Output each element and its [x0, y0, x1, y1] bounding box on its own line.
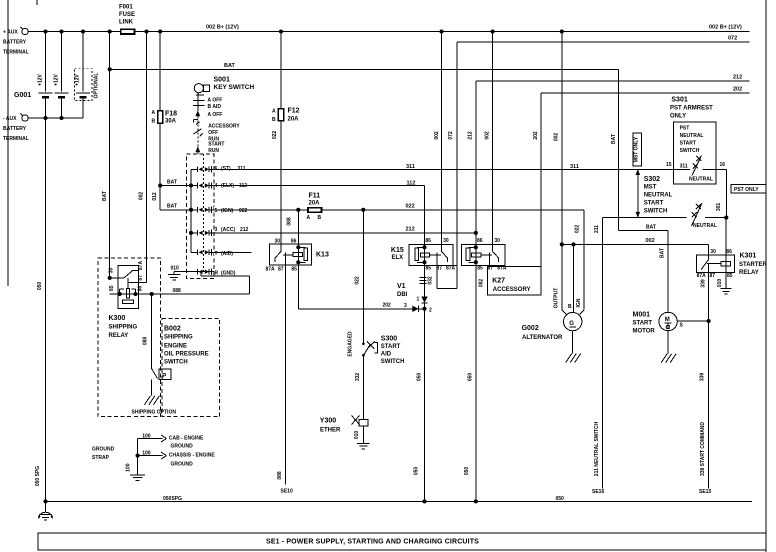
S301 row inner segments [673, 168, 690, 170]
key switch contact 5(IGN) [191, 209, 198, 211]
svg-text:A: A [307, 215, 311, 221]
svg-text:100: 100 [126, 463, 132, 472]
svg-text:2: 2 [429, 308, 432, 314]
svg-text:339: 339 [700, 373, 706, 382]
connector bars 032 [420, 277, 427, 279]
wire BAT feed ELX row [160, 185, 191, 187]
svg-text:(IGN): (IGN) [221, 208, 234, 214]
M001 ground [661, 354, 667, 363]
wire S301 out [716, 168, 727, 170]
wire BAT to K300 [109, 32, 111, 278]
wire 050 battery negative riser [45, 99, 47, 502]
K15 coil [424, 245, 426, 266]
svg-text:BAT: BAT [167, 204, 177, 210]
svg-text:G: G [569, 321, 574, 327]
key switch contact R(GND) [191, 271, 198, 273]
svg-text:K301: K301 [740, 253, 757, 260]
V1 diode vertical [421, 297, 427, 303]
svg-text:010: 010 [354, 431, 360, 440]
svg-text:85: 85 [477, 265, 483, 271]
G002 lower wire [572, 331, 574, 354]
Y300 solenoid [359, 420, 368, 426]
wire K27 85 down to 050 [475, 265, 477, 501]
svg-text:KEY SWITCH: KEY SWITCH [214, 84, 255, 91]
svg-text:012: 012 [152, 192, 158, 201]
svg-text:B: B [152, 119, 156, 125]
battery G001 cell 2 [61, 32, 63, 92]
svg-text:START: START [644, 201, 664, 207]
svg-text:212: 212 [733, 75, 742, 81]
wire 311 ST row [214, 168, 674, 170]
key switch contact 4(ELX) [191, 185, 198, 187]
K27 relay box [462, 245, 506, 266]
wire G002 B drop [573, 244, 575, 312]
S300 switch [362, 343, 365, 346]
svg-text:050: 050 [37, 282, 43, 291]
wire 002 K300 riser [146, 32, 148, 283]
wire 311 branch arrows [637, 169, 639, 217]
wire BAT bus [110, 68, 619, 70]
svg-text:G001: G001 [14, 92, 31, 99]
svg-text:BATTERY: BATTERY [3, 126, 27, 132]
Y300 lower wire [362, 426, 364, 443]
wire F12 output to K13 pin30 [280, 121, 282, 245]
svg-text:1: 1 [417, 296, 420, 302]
chassis ground symbol [45, 501, 47, 511]
wire 088 [110, 293, 250, 295]
svg-text:OIL PRESSURE: OIL PRESSURE [164, 352, 209, 358]
svg-text:GROUND: GROUND [171, 461, 194, 467]
page right border [765, 0, 767, 552]
svg-text:F001: F001 [119, 5, 133, 11]
svg-text:002 B+ (12V): 002 B+ (12V) [206, 25, 239, 31]
svg-text:ACCESSORY: ACCESSORY [493, 287, 531, 293]
svg-text:- AUX: - AUX [3, 116, 17, 122]
wire BAT M001 drop [667, 230, 669, 312]
svg-text:032: 032 [428, 276, 434, 285]
V1 diode horizontal [412, 306, 418, 312]
svg-text:IGN: IGN [576, 298, 582, 307]
svg-text:SE10: SE10 [281, 489, 293, 495]
svg-text:PST: PST [680, 126, 690, 132]
svg-text:339: 339 [701, 279, 707, 288]
svg-text:CHASSIS - ENGINE: CHASSIS - ENGINE [169, 453, 216, 459]
M001 circle [659, 312, 677, 330]
svg-text:088: 088 [277, 471, 283, 480]
wire 002 bus to K27 30 [492, 32, 494, 245]
svg-text:SWITCH: SWITCH [381, 359, 405, 365]
M001 S wire [677, 320, 708, 322]
G002 ground [566, 354, 572, 363]
wire 112 corner to K15 86 [424, 186, 426, 245]
svg-text:K27: K27 [492, 277, 505, 284]
svg-text:ENGINE: ENGINE [164, 344, 187, 350]
svg-text:F18: F18 [165, 111, 177, 118]
S302 switch [692, 203, 703, 226]
svg-text:002: 002 [554, 133, 560, 142]
K13 87 output wire SE10 [284, 265, 286, 484]
svg-text:NEUTRAL: NEUTRAL [680, 133, 704, 139]
K15 87 U-link [436, 265, 438, 288]
K13 relay box [269, 244, 311, 265]
wire -AUX [28, 117, 83, 119]
wire 212 bus to K27 86 [475, 81, 477, 245]
svg-text:A OFF: A OFF [208, 112, 223, 118]
fuse F18 [158, 111, 163, 124]
svg-text:B002: B002 [164, 326, 181, 333]
svg-text:022: 022 [575, 225, 581, 234]
K300 pin30 wire [110, 277, 124, 279]
svg-text:85: 85 [727, 273, 733, 279]
K27 coil [475, 245, 477, 266]
wire 212 top [476, 80, 750, 82]
svg-text:LINK: LINK [119, 20, 134, 26]
svg-text:K15: K15 [391, 247, 404, 254]
key arrow up [195, 111, 200, 117]
svg-text:30: 30 [275, 238, 281, 244]
svg-text:339 START COMMAND: 339 START COMMAND [700, 422, 706, 476]
svg-text:332: 332 [355, 373, 361, 382]
battery G001 cell 3 (optional) [82, 32, 84, 92]
svg-text:022: 022 [406, 203, 415, 209]
svg-text:(ACC): (ACC) [221, 227, 235, 233]
wire K15 85 down [424, 265, 426, 296]
svg-text:Y300: Y300 [320, 418, 336, 425]
optional dashed box [74, 69, 92, 101]
battery G001 cell 1 [45, 32, 47, 92]
svg-text:ELX: ELX [392, 255, 404, 261]
svg-text:CAB - ENGINE: CAB - ENGINE [169, 435, 204, 441]
wire G002 OUTPUT drop [561, 244, 563, 309]
svg-text:SHIPPING OPTION: SHIPPING OPTION [132, 410, 177, 416]
svg-text:211: 211 [594, 225, 600, 233]
svg-text:112: 112 [407, 180, 416, 186]
wire V1 pin2 down to 050 [424, 303, 426, 502]
junction dots battery bus [43, 29, 47, 33]
svg-text:SWITCH: SWITCH [164, 360, 188, 366]
svg-text:BAT: BAT [646, 224, 656, 230]
wire 050 SPG [46, 500, 753, 502]
K300 switch arm [124, 271, 133, 278]
wire 202 K13 to V1 [297, 265, 299, 309]
title block box [38, 533, 766, 550]
svg-text:S302: S302 [644, 176, 660, 183]
S301 switch [692, 156, 702, 176]
B002 ground [145, 396, 151, 405]
svg-text:PST ONLY: PST ONLY [734, 187, 759, 193]
svg-text:RELAY: RELAY [739, 270, 759, 276]
svg-text:BATTERY: BATTERY [3, 40, 27, 46]
wire 212 ACC row [214, 232, 476, 234]
svg-text:F11: F11 [309, 193, 321, 200]
K13 coil [297, 244, 299, 265]
key switch contact T(AID) [191, 251, 198, 253]
svg-text:050: 050 [464, 467, 470, 476]
svg-text:87: 87 [138, 275, 144, 281]
svg-text:PST ARMREST: PST ARMREST [670, 105, 713, 111]
svg-text:86: 86 [425, 238, 431, 244]
svg-text:87: 87 [278, 267, 284, 273]
svg-text:(GND): (GND) [221, 270, 236, 276]
key switch contact 6(ST) [191, 168, 198, 170]
svg-text:BAT: BAT [167, 180, 177, 186]
key detent hook [194, 119, 198, 121]
svg-text:30: 30 [109, 268, 115, 274]
svg-text:ENGAGED: ENGAGED [348, 331, 354, 357]
fuse F12 [278, 109, 283, 121]
svg-text:022: 022 [272, 131, 278, 140]
svg-text:3: 3 [215, 227, 218, 233]
svg-text:088: 088 [143, 337, 149, 346]
svg-text:20A: 20A [288, 117, 300, 123]
svg-text:START: START [381, 344, 401, 350]
svg-text:MST ONLY: MST ONLY [633, 136, 639, 162]
svg-text:202: 202 [733, 87, 742, 93]
K301 box [697, 255, 735, 272]
key row labels IGN [214, 207, 250, 213]
wire 301 to K301 86 [725, 218, 727, 256]
svg-text:RUN: RUN [208, 148, 219, 154]
svg-text:NEUTRAL: NEUTRAL [693, 223, 717, 229]
svg-text:30: 30 [494, 238, 500, 244]
svg-text:FUSE: FUSE [119, 12, 135, 18]
page left border [7, 0, 9, 286]
svg-text:30A: 30A [165, 119, 177, 125]
svg-text:211 NEUTRAL SWITCH: 211 NEUTRAL SWITCH [594, 421, 600, 476]
svg-text:B: B [568, 304, 572, 310]
svg-text:87: 87 [710, 273, 716, 279]
svg-text:311: 311 [680, 163, 688, 169]
K301 switch [708, 255, 710, 259]
wire 072 bus [456, 42, 458, 288]
svg-text:P: P [162, 373, 166, 379]
wire 002 output G002 [561, 32, 563, 245]
svg-text:S301: S301 [671, 96, 687, 103]
svg-text:NEUTRAL: NEUTRAL [689, 177, 713, 183]
svg-text:B: B [318, 215, 322, 221]
svg-text:G002: G002 [522, 325, 539, 332]
wire BAT to M001 horiz [618, 229, 668, 231]
ground strap arrow 2 [138, 455, 163, 457]
svg-text:ETHER: ETHER [320, 428, 341, 434]
svg-text:20A: 20A [309, 200, 321, 206]
svg-text:K300: K300 [109, 315, 126, 322]
K300 87 contact wire [129, 282, 147, 284]
svg-text:V1: V1 [397, 283, 406, 290]
svg-text:022: 022 [355, 276, 361, 285]
B002 lower wire [151, 380, 153, 396]
svg-text:072: 072 [728, 36, 737, 42]
svg-text:86: 86 [477, 238, 483, 244]
wire F18 output [159, 123, 161, 210]
svg-text:+12V: +12V [54, 73, 60, 85]
B002 dashed box [162, 318, 220, 416]
svg-text:86: 86 [726, 249, 732, 255]
wire 072 top [457, 41, 749, 43]
svg-text:GROUND: GROUND [92, 447, 115, 453]
key shaft [197, 93, 199, 111]
ground strap arrow 1 [138, 438, 163, 440]
svg-text:002: 002 [139, 192, 145, 201]
svg-text:30: 30 [710, 249, 716, 255]
wire 202 top [541, 92, 750, 94]
svg-text:M001: M001 [633, 312, 651, 319]
wire 339 K301 87 to SE15 [708, 273, 710, 489]
svg-text:ALTERNATOR: ALTERNATOR [522, 335, 563, 341]
svg-text:86: 86 [138, 286, 144, 292]
svg-text:85: 85 [109, 285, 115, 291]
wire GND row [174, 271, 212, 273]
svg-text:START: START [680, 141, 696, 147]
svg-text:010: 010 [171, 266, 180, 272]
svg-text:A: A [152, 110, 156, 116]
svg-text:311: 311 [570, 164, 579, 170]
wire GND row drop [200, 272, 202, 277]
key switch dashed box [186, 154, 214, 278]
K301 85 ground [725, 273, 727, 289]
svg-text:+12V: +12V [38, 73, 44, 85]
K27 87 routing box [488, 266, 541, 295]
svg-text:SHIPPING: SHIPPING [164, 335, 193, 341]
svg-text:050: 050 [556, 496, 565, 502]
svg-text:202: 202 [533, 131, 539, 140]
B002 wire [151, 294, 153, 369]
fuse F001 [121, 29, 135, 34]
svg-text:START: START [208, 142, 224, 148]
wire BAT down [617, 69, 619, 230]
svg-text:BAT: BAT [224, 63, 236, 69]
key switch internal bus [190, 169, 192, 252]
wire 022 corner to G002 [583, 210, 585, 310]
svg-text:010: 010 [717, 279, 723, 288]
svg-text:088: 088 [173, 288, 182, 294]
svg-text:86: 86 [291, 238, 297, 244]
svg-text:S300: S300 [381, 335, 397, 342]
svg-text:F12: F12 [288, 108, 300, 115]
svg-text:TERMINAL: TERMINAL [3, 136, 29, 142]
K15 switch [441, 245, 443, 252]
svg-text:AID: AID [381, 352, 392, 358]
svg-text:3: 3 [404, 303, 407, 309]
svg-text:BAT: BAT [660, 248, 666, 258]
K300 coil [127, 278, 129, 289]
wire 112 ELX row [214, 185, 425, 187]
svg-text:STARTER: STARTER [739, 262, 768, 268]
svg-text:050: 050 [414, 467, 420, 476]
svg-text:B: B [272, 117, 276, 123]
svg-text:S001: S001 [214, 77, 230, 84]
svg-text:SE16: SE16 [592, 489, 604, 495]
wire 022 IGN row [214, 209, 584, 211]
K300 dashed box [98, 258, 161, 417]
wire 022 to S300 [362, 210, 364, 344]
svg-text:TERMINAL: TERMINAL [3, 50, 29, 56]
svg-text:212: 212 [240, 227, 249, 233]
svg-text:082: 082 [479, 279, 485, 288]
svg-text:SE15: SE15 [699, 489, 711, 495]
B002 switch [152, 369, 158, 379]
svg-text:5: 5 [215, 208, 218, 214]
ground strap ground [130, 474, 145, 476]
S301 box [673, 122, 716, 184]
svg-text:87A: 87A [446, 265, 456, 271]
svg-text:202: 202 [383, 303, 392, 309]
svg-text:002: 002 [434, 131, 440, 140]
wire S302 out [705, 217, 726, 219]
svg-text:311: 311 [406, 164, 415, 170]
svg-text:SE1 - POWER SUPPLY, STARTING A: SE1 - POWER SUPPLY, STARTING AND CHARGIN… [266, 539, 479, 546]
K13 86 riser [297, 210, 299, 244]
key arrow up 2 [195, 146, 200, 152]
K15 relay box [409, 245, 453, 266]
svg-text:DBI: DBI [397, 292, 408, 298]
K300 relay box [118, 266, 138, 309]
-AUX battery terminal [22, 115, 28, 121]
svg-text:050SPG: 050SPG [163, 496, 182, 502]
svg-text:87A: 87A [138, 261, 144, 271]
wire 002 to K301 [562, 243, 709, 245]
svg-text:002: 002 [485, 131, 491, 140]
wire AID row [214, 251, 252, 253]
key row labels AID [214, 250, 238, 256]
svg-text:BAT: BAT [611, 134, 617, 144]
svg-text:MST: MST [644, 185, 657, 191]
svg-text:100: 100 [142, 451, 151, 457]
M001 lower wire [667, 331, 669, 354]
svg-text:87A: 87A [697, 273, 707, 279]
svg-text:B AID: B AID [208, 104, 222, 110]
svg-text:002: 002 [646, 238, 655, 244]
wire 002 B+ top bus [28, 31, 749, 33]
svg-text:050: 050 [417, 373, 423, 382]
svg-text:85: 85 [291, 267, 297, 273]
fuse F11 [308, 208, 322, 213]
svg-text:002 B+ (12V): 002 B+ (12V) [709, 25, 742, 31]
svg-text:SWITCH: SWITCH [680, 148, 700, 154]
G002 circle [564, 312, 582, 330]
PST ONLY box [731, 185, 766, 193]
svg-text:BAT: BAT [102, 191, 108, 201]
svg-text:088: 088 [287, 217, 293, 226]
svg-text:MOTOR: MOTOR [633, 329, 656, 335]
svg-text:022: 022 [239, 208, 248, 214]
wire BAT feed IGN row [160, 209, 191, 211]
+AUX battery terminal [22, 28, 28, 34]
svg-text:OUTPUT: OUTPUT [554, 288, 560, 309]
ground strap stem [137, 439, 139, 475]
ground 010 key switch [173, 272, 175, 275]
K13 switch [280, 244, 282, 251]
svg-text:85: 85 [426, 265, 432, 271]
wire 211 down [601, 218, 603, 489]
svg-text:212: 212 [468, 131, 474, 140]
key switch mech dashed line [202, 154, 204, 273]
svg-text:A: A [272, 109, 276, 115]
K301 coil [725, 255, 727, 272]
svg-text:+ AUX: + AUX [3, 30, 18, 36]
svg-text:STRAP: STRAP [92, 455, 110, 461]
svg-text:050 SPG: 050 SPG [35, 466, 41, 486]
wire S300 to Y300 [362, 356, 364, 420]
key lever [194, 129, 202, 134]
svg-text:+12V: +12V [75, 73, 81, 85]
svg-text:072: 072 [448, 131, 454, 140]
key symbol S001 [194, 84, 203, 93]
svg-text:RELAY: RELAY [109, 333, 129, 339]
svg-text:OPTIONAL: OPTIONAL [94, 73, 100, 99]
svg-text:16: 16 [720, 162, 726, 168]
svg-text:SWITCH: SWITCH [644, 209, 668, 215]
